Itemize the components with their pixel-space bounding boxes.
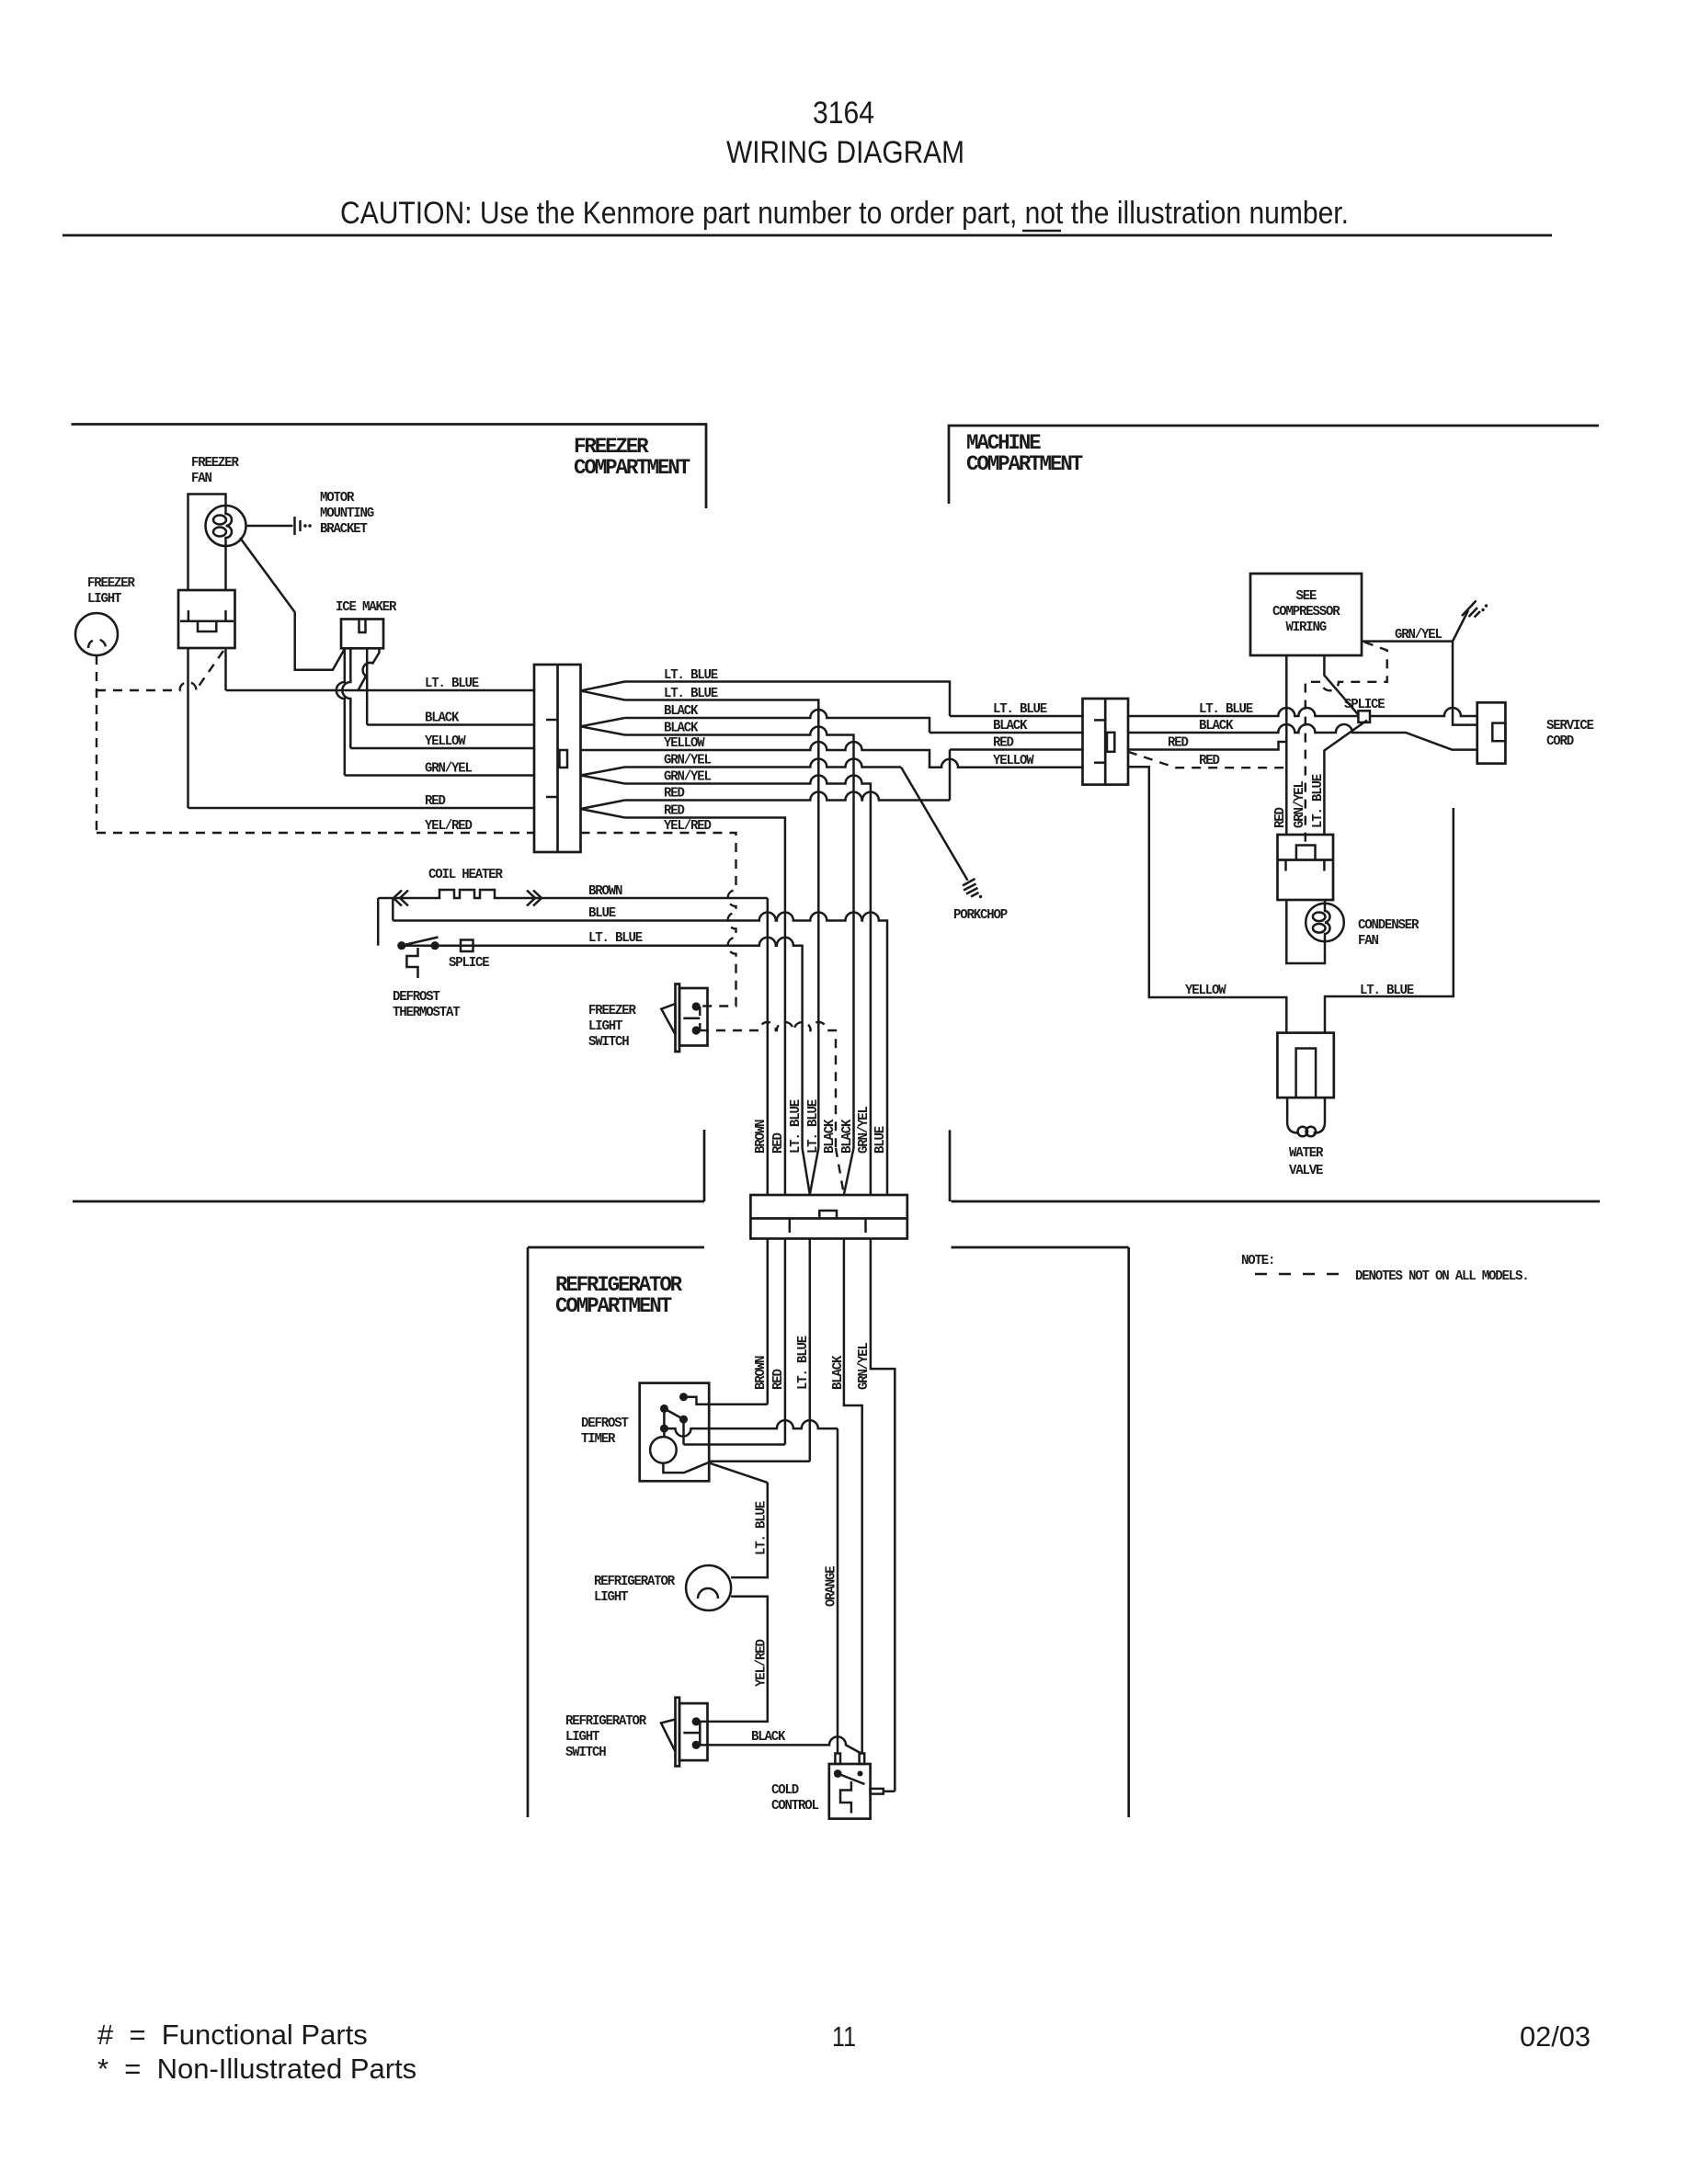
svg-text:FAN: FAN [1358, 934, 1378, 949]
C1 latch tab [560, 750, 568, 768]
defrost timer contact dot 1 [679, 1393, 688, 1401]
svg-text:FREEZER: FREEZER [87, 576, 135, 591]
svg-text:FAN: FAN [191, 472, 211, 486]
wire YELLOW row into C1 [350, 747, 534, 750]
coil heater element wire with bumps [378, 890, 768, 898]
defrost timer contact dot 3 [679, 1416, 688, 1424]
wire BLACK between C1 and C2 [930, 732, 1083, 734]
svg-text:BRACKET: BRACKET [320, 522, 368, 537]
BLUE tap wire down [392, 898, 394, 921]
refrigerator light switch plate [676, 1698, 680, 1767]
svg-text:CAUTION: Use the Kenmore part: CAUTION: Use the Kenmore part number to … [340, 196, 1349, 231]
svg-text:11: 11 [832, 2020, 856, 2053]
defrost thermostat switch arm [402, 938, 439, 946]
svg-text:YELLOW: YELLOW [1185, 984, 1226, 998]
wire C0 left pin down to RED row [187, 648, 189, 808]
cold control pin left [835, 1754, 840, 1765]
svg-text:VALVE: VALVE [1289, 1164, 1324, 1178]
svg-text:THERMOSTAT: THERMOSTAT [393, 1006, 461, 1020]
refrigerator compartment left border [527, 1247, 530, 1817]
svg-text:SPLICE: SPLICE [1344, 698, 1386, 712]
wire BLACK right of C2 (hops, diagonal to service cord) [1128, 724, 1477, 750]
svg-text:REFRIGERATOR: REFRIGERATOR [565, 1714, 646, 1729]
wire LT. BLUE #1 right of C1 (to machine row) [625, 682, 951, 717]
svg-text:BLACK: BLACK [664, 704, 699, 719]
refrigerator light switch body [679, 1703, 708, 1760]
relay inner rect [1296, 846, 1316, 860]
C1 chevron pair LT. BLUE [581, 682, 625, 700]
freezer light switch body [679, 988, 708, 1046]
freezer light dashed drop to YEL/RED row [96, 655, 97, 833]
ice maker pin 1 wire to GRN/YEL row (hop over neutral row) [336, 648, 345, 775]
dashed wire switch bottom contact (hops over bundle, turns down) [700, 1022, 836, 1148]
svg-text:WATER: WATER [1289, 1146, 1324, 1161]
svg-text:LT. BLUE: LT. BLUE [993, 702, 1047, 717]
ice maker notch [359, 620, 366, 633]
svg-text:YEL/RED: YEL/RED [755, 1639, 770, 1687]
svg-text:YELLOW: YELLOW [664, 736, 705, 751]
motor mounting bracket symbol [293, 517, 296, 535]
freezer light switch contact top [692, 1002, 701, 1010]
svg-text:LIGHT: LIGHT [87, 592, 122, 607]
cold control contact dot left [834, 1769, 842, 1778]
svg-text:LT. BLUE: LT. BLUE [789, 1099, 804, 1154]
C1 center line [556, 665, 559, 852]
wire LT. BLUE below C3 to defrost timer [809, 1239, 812, 1462]
freezer light switch actuator triangle [661, 1004, 675, 1034]
svg-text:BLUE: BLUE [588, 906, 616, 921]
condenser fan coil glyph [1325, 904, 1330, 942]
svg-text:LT. BLUE: LT. BLUE [664, 668, 718, 683]
svg-text:FREEZER: FREEZER [588, 1004, 636, 1018]
svg-text:RED: RED [993, 736, 1014, 751]
svg-text:PORKCHOP: PORKCHOP [953, 908, 1008, 923]
LT. BLUE branch down to refrigerator light [731, 1483, 768, 1578]
svg-text:LT. BLUE: LT. BLUE [806, 1099, 821, 1154]
header horizontal rule [63, 234, 1552, 237]
machine compartment bottom border [952, 1200, 1601, 1203]
C2 center line [1104, 699, 1107, 785]
svg-text:MOTOR: MOTOR [320, 491, 355, 506]
wire BLACK #1 right of C1 (hop over LT.BLUE bundle wire, step down) [625, 710, 930, 733]
cold control body [829, 1764, 871, 1819]
dashed diagonal from C0 to freezer light row [198, 651, 223, 688]
svg-text:COIL HEATER: COIL HEATER [428, 868, 503, 882]
svg-text:MOUNTING: MOUNTING [320, 506, 373, 521]
machine chassis ground symbol [1462, 601, 1480, 618]
svg-text:LT. BLUE: LT. BLUE [755, 1501, 770, 1555]
svg-text:RED: RED [1199, 754, 1220, 768]
timer wire row 4 to LT. BLUE [708, 1460, 810, 1462]
defrost timer switch arm 2-3 [664, 1408, 683, 1419]
svg-text:SERVICE: SERVICE [1546, 719, 1594, 734]
defrost timer link 2-4-motor [663, 1408, 666, 1437]
timer wire row 2 to ORANGE junction (dip over dot3 leg, two hops) [664, 1420, 838, 1437]
svg-text:LIGHT: LIGHT [594, 1590, 629, 1605]
svg-text:COMPRESSOR: COMPRESSOR [1272, 605, 1340, 620]
water valve body [1277, 1033, 1333, 1098]
svg-text:LIGHT: LIGHT [565, 1730, 600, 1745]
svg-text:RED: RED [664, 804, 685, 819]
splice to relay LT. BLUE wire [1324, 721, 1367, 836]
wire RED #1 right of C1 (three hops, join RED riser) [625, 792, 951, 801]
service cord inner tab [1492, 723, 1505, 742]
freezer light switch contact bottom [692, 1026, 701, 1034]
wire RED into C2 left [950, 748, 1083, 751]
RED riser wire linking C2 RED row to freezer RED row [949, 750, 952, 801]
underline under "not" [1022, 230, 1061, 233]
svg-text:SWITCH: SWITCH [565, 1746, 606, 1760]
svg-text:CONTROL: CONTROL [771, 1799, 818, 1814]
coil heater right chevrons >> [527, 891, 542, 906]
svg-text:BLACK: BLACK [1199, 719, 1234, 734]
C1 tick lower [546, 796, 558, 799]
segment thermostat to splice [439, 944, 461, 947]
condenser fan left wire [1286, 900, 1325, 963]
svg-text:RED: RED [664, 787, 685, 802]
freezer light switch dashed gang link [699, 1007, 701, 1030]
svg-text:LT. BLUE: LT. BLUE [588, 931, 643, 946]
freezer light switch inner bar [683, 1017, 700, 1019]
wire LT. BLUE #2 right of C1 (turns down into bundle) [625, 700, 819, 1149]
C0 inner line [180, 620, 234, 622]
svg-text:GRN/YEL: GRN/YEL [857, 1343, 872, 1390]
C0 pin tick left [188, 610, 190, 621]
svg-text:YELLOW: YELLOW [993, 754, 1034, 768]
machine compartment top border [949, 426, 1599, 504]
svg-text:FREEZER: FREEZER [191, 456, 239, 471]
defrost timer motor circle [650, 1437, 677, 1463]
GRN/YEL wire to chassis ground and service cord [1362, 610, 1477, 725]
freezer fan lower lead [224, 545, 227, 590]
timer wire row 3 to RED [684, 1443, 785, 1446]
dashed GRN/YEL from compressor box (hop over diagonal, down to relay) [1306, 643, 1387, 847]
cold control switch arm [838, 1774, 864, 1785]
wire ORANGE down to cold control [837, 1428, 839, 1753]
water valve inner solenoid [1296, 1049, 1317, 1098]
wire RED below C3 to defrost timer [784, 1239, 787, 1445]
svg-text:REFRIGERATOR: REFRIGERATOR [594, 1575, 675, 1589]
C0 latch rect [198, 621, 216, 631]
freezer light filament (dashed) [88, 640, 106, 649]
svg-text:GRN/YEL: GRN/YEL [1293, 781, 1307, 828]
wire GRN/YEL row into C1 [345, 774, 534, 777]
svg-text:RED: RED [425, 794, 446, 809]
wire YEL/RED dashed row into C1 [97, 832, 534, 834]
svg-text:GRN/YEL: GRN/YEL [664, 754, 711, 768]
BLACK solid taper into C3 [844, 1148, 854, 1195]
svg-text:COMPARTMENT: COMPARTMENT [966, 452, 1083, 476]
wire BLACK row into C1 [367, 723, 534, 726]
refrigerator light filament [698, 1588, 718, 1598]
svg-text:ICE MAKER: ICE MAKER [336, 600, 397, 615]
svg-text:RED: RED [1168, 736, 1189, 751]
ice maker pin 3 wire to BLACK row [366, 648, 369, 724]
defrost thermostat contact dot left [397, 941, 405, 950]
svg-text:WIRING DIAGRAM: WIRING DIAGRAM [726, 135, 964, 170]
freezer fan top bar wire [188, 495, 226, 591]
C3 tick left [789, 1219, 792, 1234]
refrigerator light circle [686, 1565, 731, 1610]
defrost timer contact dot 4 [660, 1425, 668, 1433]
freezer border doorway stub [703, 1130, 706, 1201]
wire GRN/YEL #1 right of C1 (two hops, to porkchop diagonal) [625, 759, 902, 768]
heater left down wire [377, 898, 380, 946]
ice maker body [341, 620, 383, 649]
svg-text:LT. BLUE: LT. BLUE [1311, 774, 1326, 828]
svg-text:SEE: SEE [1296, 589, 1317, 604]
refrigerator bulkhead connector C3 [750, 1195, 907, 1239]
water valve left pin [1286, 1098, 1289, 1123]
wire YELLOW loop from C2 bottom to water valve [1128, 767, 1286, 1033]
C3 tick right [864, 1219, 867, 1234]
cold control side terminal [871, 1789, 884, 1794]
relay tick right [1323, 860, 1326, 871]
svg-text:ORANGE: ORANGE [825, 1565, 839, 1607]
svg-text:COLD: COLD [771, 1783, 799, 1798]
freezer light switch plate [676, 984, 680, 1052]
svg-text:RED: RED [771, 1369, 786, 1390]
C0 pin tick right [224, 610, 227, 621]
relay inner line [1278, 859, 1334, 861]
coil heater left chevrons << [393, 891, 408, 906]
timer dot 3 leg [682, 1419, 685, 1444]
splice square (machine) [1358, 711, 1370, 722]
ice maker pin 4 diagonal to LT. BLUE row (hop over pin 3) [359, 648, 380, 690]
svg-text:RED: RED [1273, 807, 1288, 828]
C2 tick upper [1094, 719, 1105, 722]
svg-text:3164: 3164 [813, 96, 874, 131]
wire RED right of C2 (solid, to compressor RED lead) [1128, 742, 1286, 750]
porkchop ground diagonal [901, 768, 968, 881]
wire RED #2 right of C1 (turns down into bundle) [625, 818, 785, 1196]
svg-text:LIGHT: LIGHT [588, 1019, 623, 1034]
svg-text:SWITCH: SWITCH [588, 1035, 629, 1050]
svg-text:DEFROST: DEFROST [581, 1416, 629, 1431]
machine bulkhead connector C2 [1083, 699, 1129, 785]
water valve coil [1287, 1123, 1325, 1133]
svg-text:RED: RED [771, 1132, 786, 1154]
relay / overload box [1278, 835, 1334, 900]
wire BROWN turns down into bundle [767, 898, 770, 1195]
condenser fan motor circle [1306, 904, 1344, 942]
C1 chevron pair RED [581, 801, 625, 818]
splice square (freezer) [461, 940, 473, 952]
svg-text:LT. BLUE: LT. BLUE [425, 677, 479, 691]
service cord connector [1477, 702, 1506, 763]
svg-text:BROWN: BROWN [754, 1120, 769, 1154]
refrigerator light switch gang link [699, 1722, 701, 1746]
svg-text:CORD: CORD [1546, 734, 1574, 749]
YEL/RED branch light to switch [700, 1597, 768, 1722]
C3 latch notch [819, 1211, 837, 1219]
freezer light bulb circle [75, 613, 118, 655]
wire LT. BLUE right of C2 (hops, through splice, to service cord) [1128, 708, 1477, 716]
refrigerator compartment right border [1127, 1247, 1130, 1817]
C1 chevron pair BLACK [581, 718, 625, 735]
svg-text:DENOTES NOT ON ALL MODELS.: DENOTES NOT ON ALL MODELS. [1355, 1269, 1529, 1284]
wire RED row into C1 [188, 807, 535, 810]
defrost thermostat contact dot right [431, 941, 439, 950]
porkchop ground symbol [963, 879, 979, 897]
C2 latch tab [1107, 733, 1114, 752]
timer motor output to light branch [663, 1462, 767, 1483]
freezer compartment top border [72, 425, 707, 509]
condenser fan right wire [1324, 900, 1327, 904]
svg-text:BLUE: BLUE [873, 1126, 888, 1154]
wire BLACK from switch to cold control (hop over ORANGE) [700, 1736, 861, 1753]
refrigerator light switch inner bar [683, 1732, 700, 1735]
wire BLUE row (hops over bundle, turns down) [393, 913, 887, 1196]
wire GRN/YEL below C3 (jog right, down to cold control side) [871, 1239, 895, 1792]
svg-text:YEL/RED: YEL/RED [425, 819, 473, 834]
svg-text:02/03: 02/03 [1520, 2020, 1591, 2053]
cold control side wire to GRN/YEL riser [884, 1791, 895, 1793]
svg-text:YEL/RED: YEL/RED [664, 819, 712, 834]
svg-text:BLACK: BLACK [664, 722, 699, 736]
refrigerator compartment top border left segment [528, 1246, 704, 1249]
freezer light dashed link to neutral row (hop over RED wire) [97, 682, 199, 690]
machine border doorway stub [949, 1130, 952, 1201]
ice maker pin 2 wire to YELLOW row (hop over neutral row) [342, 648, 350, 748]
motor mounting bracket lead wire [245, 525, 293, 528]
svg-text:# = Functional Parts: # = Functional Parts [97, 2019, 368, 2051]
compressor LT. BLUE lead to splice [1324, 655, 1358, 715]
BLACK dashed taper into C3 [836, 1148, 844, 1195]
LT. BLUE pair taper into C3 [803, 1148, 819, 1195]
wire LT. BLUE between C1 and C2 [950, 715, 1083, 718]
svg-text:GRN/YEL: GRN/YEL [1395, 628, 1442, 643]
svg-text:GRN/YEL: GRN/YEL [664, 770, 711, 785]
wire LT. BLUE row into C1 [226, 689, 535, 692]
svg-text:TIMER: TIMER [581, 1432, 616, 1447]
wire BROWN below C3 to defrost timer [767, 1239, 770, 1405]
relay tick left [1284, 860, 1287, 871]
refrigerator light switch contact top [692, 1717, 701, 1725]
C2 tick lower [1094, 761, 1105, 764]
svg-text:BROWN: BROWN [588, 884, 622, 899]
defrost thermostat body zigzag [406, 948, 417, 978]
wire RED right of C2 (dashed, to compressor RED lead) [1128, 752, 1286, 768]
freezer fan connector C0 [178, 590, 235, 648]
wire GRN/YEL #2 right of C1 (two hops, turns down into bundle) [625, 776, 871, 1196]
wire YEL/RED dashed right of C1 (turns down to light switch) [581, 833, 736, 1007]
C1 chevron pair GRN/YEL [581, 768, 625, 784]
compressor wiring box [1250, 574, 1362, 655]
wire YELLOW right of C1 (two hops, step down, hop, into C2) [581, 742, 1083, 768]
cold control capillary zigzag [840, 1781, 851, 1814]
svg-text:COMPARTMENT: COMPARTMENT [555, 1294, 672, 1318]
C3 inner line [750, 1217, 907, 1220]
svg-text:CONDENSER: CONDENSER [1358, 918, 1420, 933]
wire C0 right pin down to LT. BLUE row [224, 648, 227, 690]
svg-text:LT. BLUE: LT. BLUE [664, 687, 718, 701]
svg-text:GRN/YEL: GRN/YEL [425, 762, 472, 777]
svg-text:NOTE:: NOTE: [1241, 1254, 1274, 1268]
wire BLACK #2 right of C1 (hop, turns down into bundle) [625, 727, 854, 1149]
freezer fan motor coil glyph [226, 506, 233, 545]
svg-text:BLACK: BLACK [425, 711, 460, 726]
svg-text:YELLOW: YELLOW [425, 734, 466, 749]
bulkhead connector C1 [534, 665, 581, 852]
C1 tick upper [546, 719, 558, 722]
cold control contact dot right [858, 1771, 863, 1777]
freezer fan motor circle M1 [206, 506, 246, 546]
defrost timer box [640, 1383, 710, 1482]
note dashed sample [1255, 1273, 1344, 1276]
freezer compartment bottom border [73, 1200, 704, 1203]
timer wire row 1 to BROWN [684, 1397, 768, 1405]
wire BLACK below C3 (jog right, down to cold control) [844, 1239, 862, 1754]
refrigerator compartment top border right segment [952, 1246, 1129, 1249]
svg-text:* = Non-Illustrated Parts: * = Non-Illustrated Parts [97, 2053, 416, 2085]
wire LT. BLUE row from thermostat (hops, turns down) [402, 938, 803, 1148]
compressor RED lead down to relay [1285, 655, 1288, 835]
svg-text:LT. BLUE: LT. BLUE [1199, 702, 1253, 717]
svg-text:GRN/YEL: GRN/YEL [857, 1107, 872, 1154]
svg-text:SPLICE: SPLICE [449, 956, 490, 971]
svg-text:DEFROST: DEFROST [393, 990, 440, 1005]
LT. BLUE return loop to water valve [1325, 808, 1454, 1033]
refrigerator light switch actuator triangle [661, 1720, 676, 1752]
svg-text:BLACK: BLACK [993, 719, 1028, 734]
water valve right pin [1324, 1098, 1327, 1123]
cold control pin right [860, 1754, 865, 1765]
defrost timer contact dot 2 [660, 1405, 668, 1413]
svg-text:COMPARTMENT: COMPARTMENT [574, 456, 690, 480]
svg-text:WIRING: WIRING [1286, 620, 1327, 635]
wire fan to ice maker pin 1 (diagonal + down + right) [240, 538, 345, 670]
svg-text:BLACK: BLACK [751, 1730, 786, 1745]
svg-text:LT. BLUE: LT. BLUE [1360, 984, 1414, 998]
refrigerator light switch contact bottom [692, 1741, 701, 1749]
